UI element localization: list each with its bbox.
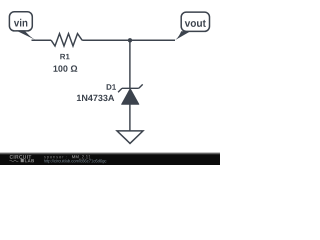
value label 100 Ω (54, 65, 78, 71)
wire junction down to D1 cathode (129, 40, 131, 88)
zener diode D1 (118, 84, 143, 104)
node vout (callout flag) (175, 12, 210, 40)
label D1 (107, 84, 116, 89)
wire vin to R1 (32, 39, 52, 41)
wire D1 anode to ground (129, 104, 131, 131)
junction dot at vout node (128, 38, 132, 42)
ground (117, 131, 143, 144)
wire junction to vout pointer (130, 39, 175, 41)
watermark CircuitLab logo (10, 155, 35, 162)
node vin (callout flag) (9, 12, 36, 41)
label R1 (60, 54, 69, 59)
wire R1 to junction (82, 39, 130, 41)
watermark sponsor text (44, 156, 67, 159)
resistor R1 (51, 34, 82, 46)
value label 1N4733A (77, 95, 114, 101)
